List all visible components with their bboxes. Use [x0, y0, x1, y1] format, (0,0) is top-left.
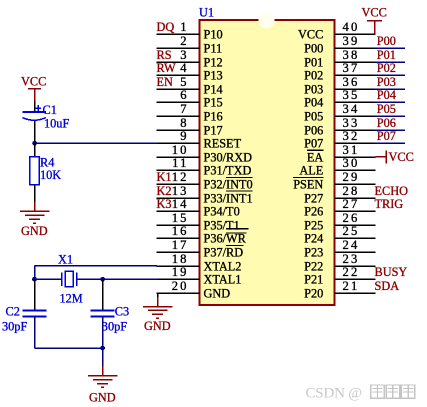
wire crystal right plate to XTAL1 (pin19): [77, 278, 157, 280]
pin 23 wire stub + number: [335, 252, 376, 266]
svg-text:33: 33: [343, 116, 360, 130]
svg-text:4: 4: [180, 61, 189, 75]
junction dot right of X1: [100, 277, 105, 282]
svg-text:GND: GND: [204, 286, 231, 300]
wire down to C2: [34, 279, 36, 310]
svg-text:P03: P03: [304, 82, 323, 96]
svg-text:P05: P05: [377, 102, 396, 116]
pin 31 wire stub + number: [335, 143, 376, 157]
wire RESET node to pin 9: [35, 142, 157, 144]
wire XTAL2 (pin18) run: [35, 265, 158, 267]
pin 14 wire stub + number: [157, 197, 200, 211]
svg-text:5: 5: [180, 75, 189, 89]
svg-text:P21: P21: [304, 272, 323, 286]
svg-text:RESET: RESET: [204, 136, 242, 150]
svg-text:20: 20: [172, 279, 189, 293]
svg-text:P17: P17: [204, 123, 223, 137]
svg-text:VCC: VCC: [389, 150, 414, 164]
svg-text:35: 35: [343, 88, 360, 102]
svg-text:18: 18: [172, 252, 189, 266]
svg-text:XTAL1: XTAL1: [204, 272, 242, 286]
wire junction to R4: [34, 143, 36, 157]
ground symbol GND (crystal): [88, 376, 117, 405]
pin 21 wire stub + number: [335, 279, 376, 293]
svg-text:P34/T0: P34/T0: [204, 204, 240, 218]
svg-text:9: 9: [180, 129, 189, 143]
svg-text:12: 12: [172, 170, 189, 184]
wire to crystal left plate: [35, 278, 62, 280]
svg-text:22: 22: [343, 265, 360, 279]
svg-text:39: 39: [343, 34, 360, 48]
pin 37 wire stub + number: [335, 61, 376, 75]
wire R4 to GND: [34, 185, 36, 212]
capacitor C2 30pF: [23, 311, 47, 317]
junction dot RESET node: [32, 141, 37, 146]
pin 38 wire stub + number: [335, 48, 376, 62]
pin 6 wire stub + number: [157, 88, 200, 102]
svg-text:RW: RW: [157, 61, 177, 75]
svg-text:P07: P07: [377, 129, 396, 143]
wire C2 down: [34, 317, 36, 349]
svg-text:XTAL2: XTAL2: [204, 259, 242, 273]
svg-text:PSEN: PSEN: [293, 177, 323, 191]
svg-text:GND: GND: [89, 391, 116, 405]
svg-text:P33/INT1: P33/INT1: [204, 191, 253, 205]
wire VCC to C1: [34, 101, 36, 112]
U1 left pin names: [204, 27, 253, 300]
pin 34 wire stub + number: [335, 102, 376, 116]
svg-text:12M: 12M: [60, 292, 83, 306]
pin 15 wire stub + number: [157, 211, 200, 225]
svg-text:C2: C2: [6, 305, 20, 319]
crystal X1 12M: [58, 253, 83, 306]
watermark CSDN @xianyudi: [306, 385, 415, 402]
svg-text:P37/RD: P37/RD: [204, 245, 244, 259]
wire bottom run C2 to C3: [35, 347, 103, 349]
svg-text:P31/TXD: P31/TXD: [204, 163, 252, 177]
wire + net label P05 (pin 34): [375, 102, 405, 116]
resistor R4 10K: [30, 157, 39, 185]
svg-text:P07: P07: [304, 136, 323, 150]
svg-text:SDA: SDA: [375, 279, 400, 293]
svg-text:17: 17: [172, 238, 189, 252]
svg-text:19: 19: [172, 265, 189, 279]
pin 32 wire stub + number: [335, 129, 376, 143]
svg-text:P00: P00: [304, 41, 323, 55]
pin 3 wire stub + number: [157, 48, 200, 62]
svg-text:P02: P02: [304, 68, 323, 82]
svg-text:P04: P04: [304, 95, 323, 109]
svg-text:P01: P01: [304, 55, 323, 69]
ground symbol GND (below R4): [20, 211, 49, 238]
wire to bottom GND: [102, 348, 104, 376]
svg-text:P23: P23: [304, 245, 323, 259]
pin 27 wire stub + number: [335, 197, 376, 211]
svg-text:K3: K3: [157, 197, 172, 211]
wire C3 down: [102, 317, 104, 349]
svg-text:37: 37: [343, 61, 360, 75]
svg-text:C3: C3: [115, 305, 129, 319]
svg-text:21: 21: [343, 279, 360, 293]
capacitor C3 30pF: [91, 311, 115, 317]
svg-text:P25: P25: [304, 218, 323, 232]
pin 16 wire stub + number: [157, 224, 200, 238]
pin 28 wire stub + number: [335, 184, 376, 198]
svg-text:P11: P11: [204, 41, 223, 55]
svg-text:P20: P20: [304, 286, 323, 300]
svg-text:X1: X1: [58, 253, 73, 267]
pin 22 wire stub + number: [335, 265, 376, 279]
svg-text:P10: P10: [204, 27, 223, 41]
IC U1 body (AT89C51 DIP-40): [200, 13, 335, 306]
svg-text:ECHO: ECHO: [375, 184, 409, 198]
svg-text:GND: GND: [21, 224, 48, 238]
wire + net label P06 (pin 33): [375, 116, 405, 130]
svg-text:34: 34: [343, 102, 360, 116]
pin 40 wire stub + number: [335, 20, 376, 34]
pin 17 wire stub + number: [157, 238, 200, 252]
svg-text:VCC: VCC: [362, 6, 387, 20]
pin 25 wire stub + number: [335, 224, 376, 238]
pin 4 wire stub + number: [157, 61, 200, 75]
pin 36 wire stub + number: [335, 75, 376, 89]
svg-text:P22: P22: [304, 259, 323, 273]
svg-text:P24: P24: [304, 231, 323, 245]
svg-text:P14: P14: [204, 82, 223, 96]
svg-text:P06: P06: [377, 116, 396, 130]
svg-text:10uF: 10uF: [44, 117, 69, 131]
svg-text:7: 7: [180, 102, 189, 116]
pin 12 wire stub + number: [157, 170, 200, 184]
junction dot bottom: [100, 346, 105, 351]
svg-text:P26: P26: [304, 204, 323, 218]
svg-text:23: 23: [343, 252, 360, 266]
svg-text:K2: K2: [157, 184, 172, 198]
svg-text:30pF: 30pF: [2, 320, 27, 334]
svg-text:P03: P03: [377, 75, 396, 89]
wire + net label P02 (pin 37): [375, 61, 405, 75]
svg-text:32: 32: [343, 129, 360, 143]
svg-text:3: 3: [180, 48, 189, 62]
svg-text:26: 26: [343, 211, 360, 225]
svg-text:BUSY: BUSY: [375, 265, 408, 279]
svg-text:VCC: VCC: [298, 27, 323, 41]
svg-text:8: 8: [180, 116, 189, 130]
pin 5 wire stub + number: [157, 75, 200, 89]
wire + net label P01 (pin 38): [375, 48, 405, 62]
svg-text:36: 36: [343, 75, 360, 89]
svg-text:CSDN @: CSDN @: [306, 386, 363, 402]
svg-text:P06: P06: [304, 123, 323, 137]
wire + net label P04 (pin 35): [375, 88, 405, 102]
svg-text:30pF: 30pF: [102, 320, 127, 334]
pin 19 wire stub + number: [157, 265, 200, 279]
wire + net label P03 (pin 36): [375, 75, 405, 89]
wire C1 to junction: [34, 121, 36, 143]
wire corner down to crystal row: [34, 266, 36, 280]
power symbol VCC (top left): [21, 75, 46, 102]
svg-text:24: 24: [343, 238, 360, 252]
svg-text:10K: 10K: [40, 168, 61, 182]
svg-text:ALE: ALE: [299, 163, 323, 177]
svg-text:P00: P00: [377, 34, 396, 48]
svg-text:30: 30: [343, 156, 360, 170]
svg-text:P15: P15: [204, 95, 223, 109]
svg-text:P16: P16: [204, 109, 223, 123]
svg-text:27: 27: [343, 197, 360, 211]
junction dot left of X1: [32, 277, 37, 282]
svg-text:DQ: DQ: [157, 20, 175, 34]
svg-text:28: 28: [343, 184, 360, 198]
svg-text:P30/RXD: P30/RXD: [204, 150, 253, 164]
wire down to C3: [102, 279, 104, 310]
svg-text:38: 38: [343, 48, 360, 62]
svg-text:TRIG: TRIG: [375, 197, 404, 211]
wire pin20 to GND: [157, 293, 159, 307]
svg-text:29: 29: [343, 170, 360, 184]
svg-text:16: 16: [172, 224, 189, 238]
ground symbol GND (pin 20): [143, 307, 172, 334]
svg-text:VCC: VCC: [21, 75, 46, 89]
pin 9 wire stub + number: [157, 129, 200, 143]
pin 7 wire stub + number: [157, 102, 200, 116]
wire + net label P07 (pin 32): [375, 129, 405, 143]
svg-text:P35/T1: P35/T1: [204, 218, 240, 232]
svg-text:RS: RS: [157, 48, 172, 62]
svg-text:P32/INT0: P32/INT0: [204, 177, 253, 191]
svg-text:10: 10: [172, 143, 189, 157]
svg-text:P27: P27: [304, 191, 323, 205]
svg-text:K1: K1: [157, 170, 172, 184]
svg-text:2: 2: [180, 34, 189, 48]
svg-text:P02: P02: [377, 61, 396, 75]
pin 35 wire stub + number: [335, 88, 376, 102]
svg-text:P01: P01: [377, 48, 396, 62]
svg-text:15: 15: [172, 211, 189, 225]
pin 26 wire stub + number: [335, 211, 376, 225]
pin 33 wire stub + number: [335, 116, 376, 130]
svg-text:U1: U1: [199, 6, 214, 20]
svg-text:40: 40: [343, 20, 360, 34]
svg-text:EN: EN: [157, 75, 174, 89]
pin 8 wire stub + number: [157, 116, 200, 130]
svg-text:P12: P12: [204, 55, 223, 69]
pin 13 wire stub + number: [157, 184, 200, 198]
power symbol VCC (pin 31 / EA): [375, 150, 413, 164]
power symbol VCC (pin 40): [362, 6, 387, 35]
pin 30 wire stub + number: [335, 156, 376, 170]
pin 18 wire stub + number: [157, 252, 200, 266]
svg-text:C1: C1: [43, 103, 57, 117]
svg-text:11: 11: [172, 156, 189, 170]
svg-text:25: 25: [343, 224, 360, 238]
svg-text:31: 31: [343, 143, 360, 157]
svg-text:14: 14: [172, 197, 189, 211]
svg-text:1: 1: [180, 20, 189, 34]
wire + net label P00 (pin 39): [375, 34, 405, 48]
pin 10 wire stub + number: [157, 143, 200, 157]
svg-text:13: 13: [172, 184, 189, 198]
capacitor C1 10uF (polarized): [23, 105, 46, 120]
pin 11 wire stub + number: [157, 156, 200, 170]
pin 24 wire stub + number: [335, 238, 376, 252]
svg-text:P04: P04: [377, 88, 396, 102]
svg-text:GND: GND: [144, 319, 171, 333]
pin 39 wire stub + number: [335, 34, 376, 48]
svg-text:EA: EA: [307, 150, 324, 164]
U1 right pin names: [293, 27, 323, 300]
svg-text:P05: P05: [304, 109, 323, 123]
svg-text:6: 6: [180, 88, 189, 102]
pin 2 wire stub + number: [157, 34, 200, 48]
pin 29 wire stub + number: [335, 170, 376, 184]
pin 20 wire stub + number: [157, 279, 200, 293]
pin 1 wire stub + number: [157, 20, 200, 34]
svg-text:P13: P13: [204, 68, 223, 82]
